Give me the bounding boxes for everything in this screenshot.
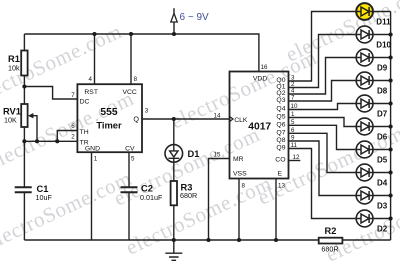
svg-text:E: E [278,171,283,178]
svg-text:14: 14 [214,112,221,119]
svg-text:1: 1 [94,155,98,162]
svg-text:TH: TH [80,129,89,136]
svg-text:Q8: Q8 [276,137,285,144]
svg-text:7: 7 [71,92,75,99]
svg-text:2: 2 [71,133,75,140]
svg-text:VDD: VDD [253,75,267,82]
svg-text:680R: 680R [180,191,197,200]
svg-text:13: 13 [278,183,285,190]
svg-text:10uF: 10uF [36,193,53,202]
svg-text:Q5: Q5 [276,114,285,121]
svg-text:Q3: Q3 [276,97,285,104]
svg-text:15: 15 [214,152,221,159]
svg-text:D10: D10 [376,41,391,50]
svg-text:Q7: Q7 [276,130,285,137]
svg-text:CO: CO [275,157,285,164]
svg-text:9: 9 [291,135,295,142]
svg-text:Q2: Q2 [276,90,285,97]
svg-text:D3: D3 [377,202,388,211]
svg-text:VSS: VSS [233,171,247,178]
svg-text:Q9: Q9 [276,145,285,152]
svg-text:4017: 4017 [248,122,271,133]
svg-text:Q: Q [133,115,139,124]
svg-text:680R: 680R [321,245,338,254]
svg-text:3: 3 [145,108,149,115]
svg-text:MR: MR [233,156,244,163]
svg-text:R2: R2 [325,226,337,236]
svg-text:D1: D1 [188,149,200,159]
svg-text:6: 6 [291,127,295,134]
svg-text:8: 8 [242,183,246,190]
svg-text:1: 1 [291,111,295,118]
svg-text:5: 5 [131,155,135,162]
svg-text:10K: 10K [4,115,17,124]
svg-text:555: 555 [100,107,117,118]
svg-text:VCC: VCC [122,89,136,96]
svg-text:D8: D8 [377,87,388,96]
svg-text:DC: DC [80,98,90,105]
svg-text:Q6: Q6 [276,122,285,129]
svg-text:D6: D6 [377,133,388,142]
svg-text:8: 8 [134,76,138,83]
svg-text:D11: D11 [376,18,391,27]
svg-text:6: 6 [71,123,75,130]
svg-text:10: 10 [291,103,298,110]
svg-text:CLK: CLK [234,117,248,124]
svg-text:Q4: Q4 [276,106,285,113]
svg-text:D7: D7 [377,110,388,119]
svg-text:11: 11 [291,142,298,149]
svg-text:D4: D4 [377,179,388,188]
svg-text:4: 4 [89,76,93,83]
svg-text:16: 16 [261,64,268,71]
svg-text:D9: D9 [377,64,388,73]
svg-text:10k: 10k [8,64,20,73]
svg-text:D5: D5 [377,156,388,165]
svg-text:R1: R1 [8,54,20,64]
svg-text:7: 7 [291,95,295,102]
svg-text:D2: D2 [377,225,388,234]
svg-text:12: 12 [293,154,300,161]
svg-text:4: 4 [291,88,295,95]
svg-text:5: 5 [291,119,295,126]
svg-text:6 ~ 9V: 6 ~ 9V [180,12,210,23]
svg-text:CV: CV [125,145,135,152]
svg-text:GND: GND [85,145,100,152]
svg-text:RST: RST [84,89,98,96]
svg-text:C2: C2 [141,184,153,194]
svg-text:0.01uF: 0.01uF [140,193,163,202]
svg-text:Timer: Timer [96,119,122,130]
